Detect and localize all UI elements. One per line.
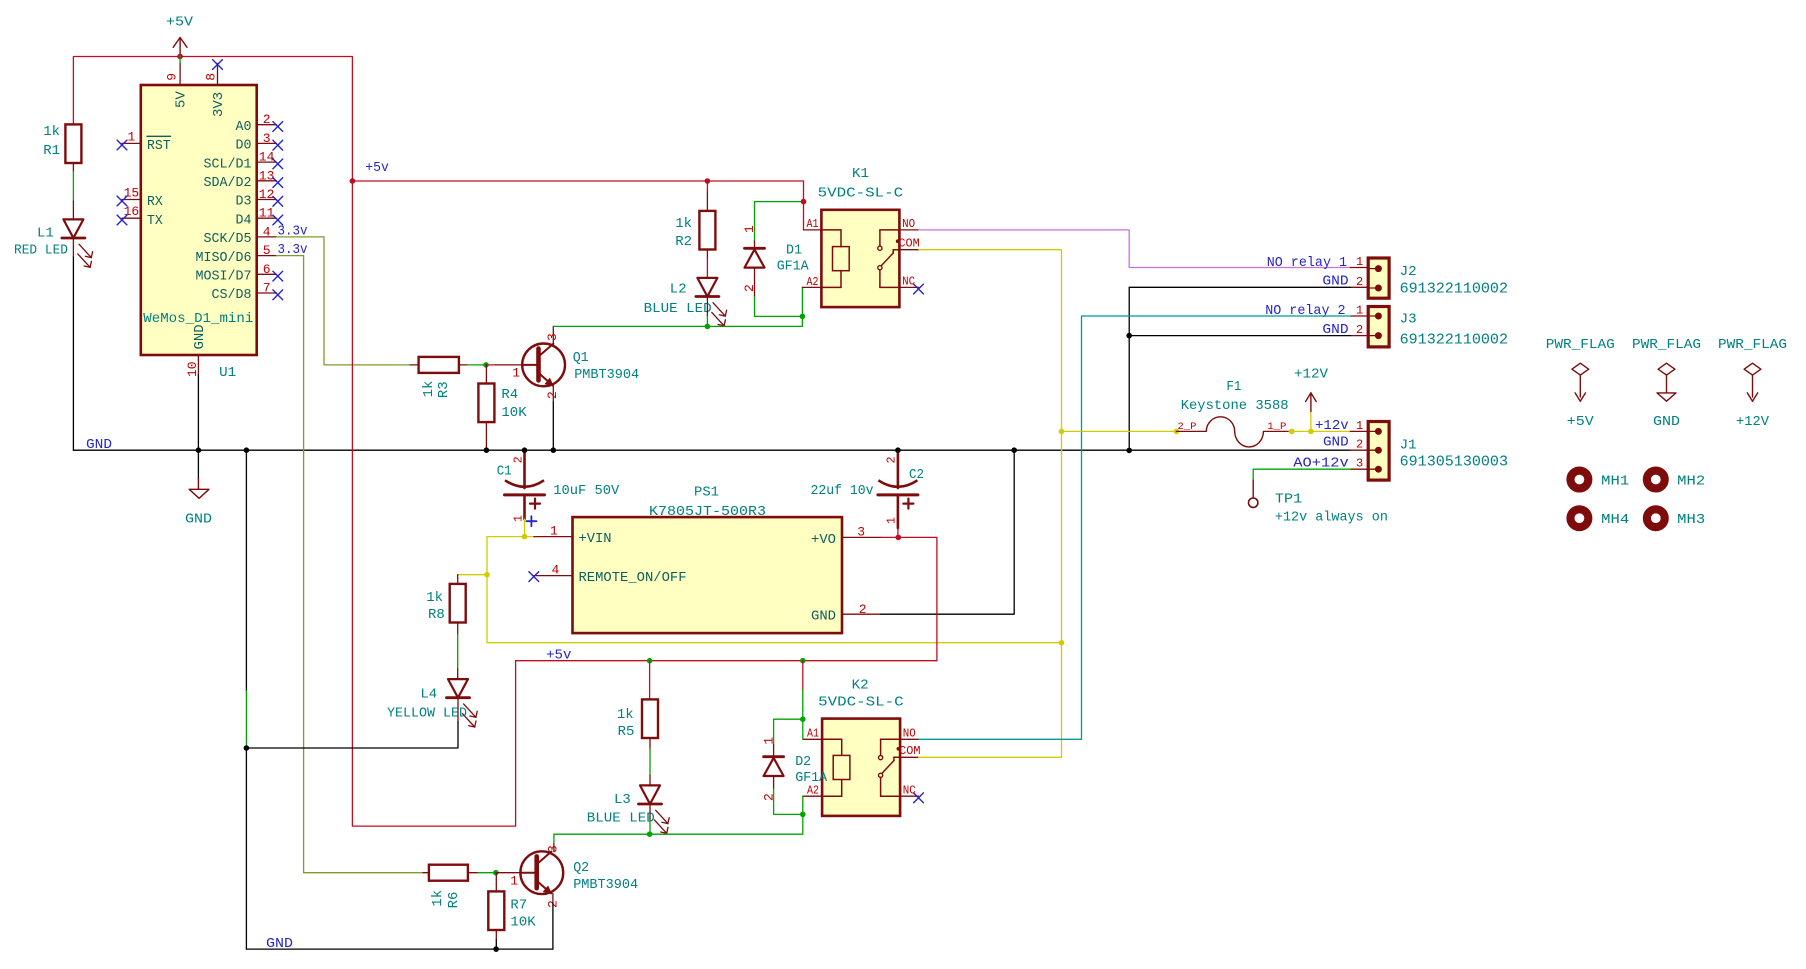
svg-text:MH2: MH2 [1677,474,1705,490]
svg-text:D4: D4 [236,212,252,228]
regulator PS1 K7805JT-500R3 [573,517,843,633]
svg-text:4: 4 [552,563,560,578]
wire K2 NO teal [919,738,1082,740]
LED L3 BLUE LED [640,785,660,804]
svg-text:NO: NO [903,727,916,741]
K1 pin NC [899,286,918,288]
PS1 pin 2 GND [842,613,881,615]
LED L2 BLUE LED [697,278,717,297]
wire GND branch left vertical [245,450,247,690]
svg-text:1: 1 [512,366,520,381]
svg-text:1: 1 [1356,255,1363,269]
svg-text:GF1A: GF1A [795,770,828,786]
svg-text:PMBT3904: PMBT3904 [574,367,639,383]
junction L2 bottom [705,324,711,330]
mounting hole MH2 [1647,471,1665,489]
svg-text:D0: D0 [236,138,252,154]
resistor R7 [495,873,497,892]
svg-text:R3: R3 [436,381,452,398]
svg-text:1k: 1k [675,216,692,232]
capacitor C1 10uF 50V [523,450,526,488]
svg-text:15: 15 [124,186,140,201]
svg-text:RED LED: RED LED [14,243,68,259]
svg-text:Q2: Q2 [573,860,589,876]
K2 pin NO [900,738,919,740]
svg-text:1k: 1k [421,381,437,398]
svg-text:1: 1 [510,873,518,888]
svg-text:1: 1 [127,129,135,144]
svg-text:12: 12 [259,187,275,202]
wire Q1 emitter to GND [552,402,554,450]
svg-text:2: 2 [1356,275,1363,289]
svg-text:2: 2 [1356,438,1363,452]
wire +5v rail to K1 [352,180,803,182]
svg-text:SCL/D1: SCL/D1 [204,156,252,172]
J2 pin 2 [1350,286,1368,288]
wire +5v lower rail [516,660,937,662]
svg-text:+12V: +12V [1736,414,1770,430]
J1 pin 2 [1350,449,1368,451]
svg-text:3: 3 [546,845,561,853]
svg-text:3: 3 [857,525,865,540]
svg-text:NO relay 2: NO relay 2 [1265,304,1345,319]
svg-text:YELLOW LED: YELLOW LED [387,705,467,721]
svg-text:+5v: +5v [365,160,389,176]
svg-text:D2: D2 [795,754,811,770]
diode D2 GF1A [774,719,803,744]
wire L3 to green row [649,804,651,820]
svg-text:MH4: MH4 [1601,512,1629,528]
svg-text:BLUE LED: BLUE LED [587,811,655,827]
svg-text:+12v: +12v [1315,418,1349,434]
wire L1 to GND bus [72,239,74,258]
svg-text:MISO/D6: MISO/D6 [196,250,252,266]
U1 pin 12 D3 [257,199,277,201]
svg-text:3: 3 [545,333,560,341]
GND bus wire [73,449,1350,451]
svg-text:K1: K1 [852,166,869,182]
PS1 pin 1 +VIN [534,536,573,538]
transistor Q1 PMBT3904 [522,344,565,387]
K1 pin COM [899,249,918,251]
wire AO+12v green [1253,469,1350,480]
U1 pin 13 SDA/D2 [257,180,277,182]
wire yellow down to rail [487,575,1062,643]
wire K1 A2 drop [801,287,803,316]
svg-text:NC: NC [903,783,916,797]
svg-text:J2: J2 [1400,264,1417,280]
svg-text:L2: L2 [670,282,687,298]
wire K2 A1 drop [800,658,806,664]
power symbol +5V top [179,38,181,57]
svg-text:1k: 1k [43,124,60,140]
wire R8 to L4 [457,623,459,635]
wire green stub 5V pin [179,57,181,64]
svg-text:1: 1 [1356,304,1363,318]
svg-text:RST: RST [147,138,171,154]
connector J3 691322110002 [1368,307,1389,347]
svg-text:+5V: +5V [1567,414,1595,430]
capacitor C2 22uf 10v [897,450,900,488]
svg-text:+5V: +5V [166,15,194,31]
wire D1 bottom loop [755,297,803,317]
svg-text:MH3: MH3 [1677,512,1705,528]
svg-text:R5: R5 [618,724,635,740]
resistor R3 [410,364,419,366]
svg-text:9: 9 [165,73,180,81]
svg-text:1k: 1k [430,890,446,907]
svg-text:NO relay 1: NO relay 1 [1267,256,1347,271]
svg-text:NO: NO [902,217,915,231]
wire SCK/D5 to R3 [277,237,411,365]
svg-text:K2: K2 [852,677,869,693]
svg-text:TP1: TP1 [1275,491,1302,507]
Q1 emitter pin 2 [552,386,554,402]
svg-text:5VDC-SL-C: 5VDC-SL-C [818,695,904,711]
svg-text:3: 3 [1356,457,1363,471]
svg-text:1: 1 [550,524,558,539]
svg-text:691322110002: 691322110002 [1400,331,1508,349]
svg-text:COM: COM [899,744,920,758]
svg-text:MOSI/D7: MOSI/D7 [196,269,252,285]
svg-text:10K: 10K [501,405,527,421]
svg-text:R7: R7 [510,897,527,913]
svg-text:1_P: 1_P [1267,422,1286,433]
svg-text:2: 2 [512,456,525,463]
svg-text:8: 8 [204,73,219,81]
Q2 collector pin 3 [552,851,554,853]
wire R2 to L2 [706,250,708,259]
svg-text:5VDC-SL-C: 5VDC-SL-C [818,185,904,201]
wire R7 to GND [495,930,497,940]
bottom GND bus [246,948,553,950]
svg-text:GND: GND [192,324,208,349]
svg-text:REMOTE_ON/OFF: REMOTE_ON/OFF [579,570,687,586]
PS1 pin 4 REMOTE_ON/OFF [534,575,573,577]
wire NO relay 1 purple [919,230,1351,268]
U1 pin 7 CS/D8 [257,292,277,294]
svg-text:1k: 1k [617,707,634,723]
wire green row to K1 A2 bend [707,316,802,326]
svg-text:1: 1 [761,737,776,745]
resistor R6 [423,872,429,874]
wire green row K2 to Q2 [554,814,803,843]
wire PS1 GND to bus [881,450,1014,614]
svg-text:TX: TX [147,213,163,229]
fuse F1 Keystone 3588 [1174,429,1180,435]
svg-text:A1: A1 [807,727,819,741]
svg-text:+12v always on: +12v always on [1275,510,1388,526]
J3 pin 2 [1350,335,1368,337]
K1 pin NO [899,229,918,231]
K2 pin COM [900,756,919,758]
U1 pin 3 D0 [257,142,277,144]
wire +VO crimson [881,537,937,660]
test point TP1 [1252,480,1254,498]
svg-text:J1: J1 [1400,437,1417,453]
svg-text:10uF 50V: 10uF 50V [553,483,620,499]
K1 pin A1 [804,229,822,231]
svg-text:GND: GND [185,512,212,528]
wire base Q2 [496,872,521,874]
connector J2 691322110002 [1368,258,1389,298]
wire U1 GND to bus [197,374,199,450]
svg-text:691305130003: 691305130003 [1400,453,1508,471]
resistor R2 [705,178,711,184]
U1 pin 4 SCK/D5 [257,236,277,238]
svg-text:7: 7 [263,281,271,296]
svg-text:PWR_FLAG: PWR_FLAG [1546,337,1615,353]
resistor R4 [485,365,487,384]
J1 pin 3 [1350,468,1368,470]
svg-text:PWR_FLAG: PWR_FLAG [1632,337,1701,353]
svg-text:2: 2 [1356,323,1363,337]
diode D1 GF1A [754,240,756,248]
K2 pin A1 [803,738,822,740]
J2 pin 1 [1350,267,1368,269]
svg-text:PWR_FLAG: PWR_FLAG [1718,337,1787,353]
U1 pin 1 RST [122,142,141,144]
svg-text:PS1: PS1 [694,485,719,501]
no-connect X on K1 NC [914,284,924,294]
svg-text:3V3: 3V3 [211,92,227,117]
svg-text:1k: 1k [426,590,443,606]
svg-text:R1: R1 [43,143,60,159]
wire yellow K1COM junction to F1 [1062,430,1177,432]
wire MISO/D6 to R6 [277,256,424,873]
svg-text:GND: GND [86,437,112,453]
svg-text:10: 10 [185,361,200,377]
svg-text:6: 6 [263,262,271,277]
svg-text:4: 4 [263,224,271,239]
svg-text:2: 2 [886,456,899,463]
relay K1 5VDC-SL-C [821,210,899,307]
U1 pin 2 A0 [257,124,277,126]
svg-text:GND: GND [1323,435,1349,451]
wire R4 to GND bus [485,422,487,450]
wire K1 COM yellow [919,250,1062,758]
svg-text:D1: D1 [786,242,802,258]
mounting hole MH1 [1571,471,1589,489]
U1 pin 6 MOSI/D7 [257,273,277,275]
svg-text:R8: R8 [428,607,445,623]
LED L1 RED LED [63,219,83,238]
svg-text:J3: J3 [1400,311,1417,327]
svg-text:5: 5 [263,243,271,258]
svg-text:A0: A0 [236,119,252,135]
svg-text:PMBT3904: PMBT3904 [573,877,638,893]
svg-text:D3: D3 [236,194,252,210]
U1 pin 14 SCL/D1 [257,161,277,163]
wire Q2 emitter to GND [552,903,554,949]
svg-text:WeMos_D1_mini: WeMos_D1_mini [143,311,253,327]
svg-text:3: 3 [263,131,271,146]
svg-text:2: 2 [545,391,560,399]
U1 pin 8 3V3 [217,64,219,86]
junction yellow R8 [484,572,490,578]
svg-text:13: 13 [259,168,275,183]
svg-text:R4: R4 [501,387,518,403]
wire R5 to L3 [649,738,651,749]
svg-text:+12V: +12V [1294,367,1329,383]
svg-text:GF1A: GF1A [777,259,810,275]
svg-text:C1: C1 [497,463,512,479]
svg-text:22uf 10v: 22uf 10v [811,483,874,499]
U1 pin 15 RX [122,199,141,201]
svg-text:2: 2 [263,112,271,127]
svg-text:U1: U1 [219,365,236,381]
svg-text:2: 2 [859,602,867,617]
K2 pin A2 [803,795,822,797]
no-connect X on 3V3 [213,60,223,70]
K1 pin A2 [802,286,821,288]
wire J2 GND black [1129,287,1350,450]
svg-text:L4: L4 [420,687,437,703]
svg-text:R6: R6 [446,892,462,909]
svg-text:SDA/D2: SDA/D2 [204,175,252,191]
svg-text:1: 1 [512,515,525,522]
svg-text:L1: L1 [37,226,54,242]
svg-text:11: 11 [259,206,275,221]
junction R3/R4/Q1 base [483,362,489,368]
mounting hole MH4 [1571,509,1589,527]
U1 pin 16 TX [122,217,141,219]
wire L4 to GND branch [457,698,459,722]
svg-text:2: 2 [761,793,776,801]
svg-text:691322110002: 691322110002 [1400,279,1508,297]
transistor Q2 PMBT3904 [520,851,563,894]
wire L2 to green row [706,296,708,316]
svg-text:+VO: +VO [811,532,836,548]
svg-text:1: 1 [1356,419,1363,433]
svg-text:R2: R2 [675,234,692,250]
U1 WeMos_D1_mini body [141,85,257,355]
wire D1 top loop [755,202,804,241]
resistor R1 [65,124,81,163]
no-connect X on K2 NC [914,793,924,803]
Q2 emitter pin 2 [552,893,554,903]
svg-text:A1: A1 [807,217,819,231]
Q1 collector pin 3 [552,326,554,343]
svg-text:SCK/D5: SCK/D5 [204,231,252,247]
svg-text:A2: A2 [807,275,819,289]
J3 pin 1 [1350,315,1368,317]
svg-text:GND: GND [811,609,836,625]
svg-text:+VIN: +VIN [579,531,612,547]
resistor R8 [457,575,459,584]
svg-text:GND: GND [266,936,293,952]
svg-text:Q1: Q1 [573,350,589,366]
wire R1 to L1 [72,163,74,171]
svg-text:L3: L3 [614,792,631,808]
wire green segment on GND branch [245,691,247,748]
wire GND branch lower [245,748,247,949]
svg-text:RX: RX [147,194,163,210]
power symbol +12V [1310,412,1312,432]
U1 pin 11 D4 [257,217,277,219]
svg-text:14: 14 [259,150,275,165]
wire Q1 collector green [553,325,707,327]
svg-text:COM: COM [898,237,919,251]
wire yellow to R8 [458,574,487,576]
svg-text:GND: GND [1653,414,1680,430]
junction F1 right [1289,429,1295,435]
wire J3 GND black [1129,335,1350,337]
wire base Q1 [486,364,495,366]
junction at U1 5V pin [177,54,183,60]
svg-text:Keystone 3588: Keystone 3588 [1181,398,1289,414]
svg-text:MH1: MH1 [1601,474,1629,490]
LED L4 YELLOW LED [448,679,468,698]
svg-text:F1: F1 [1226,379,1241,395]
wire C1 to +VIN yellow [524,519,526,537]
U1 pin 5 MISO/D6 [257,255,277,257]
plus mark blue at C1 [526,520,536,522]
wire +5v vertical down left [352,181,515,826]
junction R6/R7/Q2 base [493,870,499,876]
wire +5V top rail [73,57,352,182]
svg-text:K7805JT-500R3: K7805JT-500R3 [649,504,766,520]
mounting hole MH3 [1647,509,1665,527]
K2 pin NC [900,795,919,797]
svg-text:CS/D8: CS/D8 [212,287,252,303]
svg-text:C2: C2 [909,467,924,483]
ground symbol GND [197,450,199,479]
U1 pin 10 GND [197,355,199,374]
wire K2 COM yellow [919,756,1062,758]
svg-text:+5v: +5v [546,648,571,664]
connector J1 691305130003 [1368,422,1389,481]
svg-text:NC: NC [902,275,915,289]
J1 pin 1 [1350,430,1368,432]
svg-text:10K: 10K [510,914,536,930]
wire +5v drop to K1 A1 [803,181,805,230]
svg-text:2_P: 2_P [1178,422,1197,433]
svg-text:BLUE LED: BLUE LED [644,301,712,317]
relay K2 5VDC-SL-C [822,719,900,816]
svg-text:2: 2 [742,284,757,292]
resistor R5 [647,658,653,664]
U1 pin 9 5V [179,64,181,86]
PS1 pin 3 +VO [842,536,881,538]
wire J3 NO relay 2 teal [1082,316,1351,739]
svg-text:1: 1 [886,517,899,524]
svg-text:5V: 5V [174,91,190,108]
